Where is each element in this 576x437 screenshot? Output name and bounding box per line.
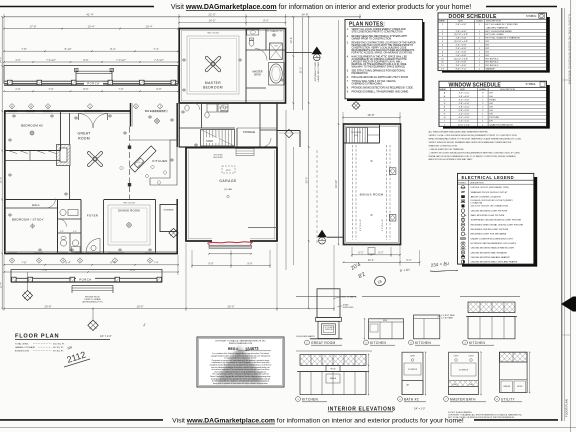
bonus room upper landing walls xyxy=(379,124,381,143)
kitchen ceiling diamonds xyxy=(120,166,124,170)
svg-text:(2) 2'-0" x 6'-8": (2) 2'-0" x 6'-8" xyxy=(454,58,468,60)
svg-text:220 VOLT OUTLET OR CONNECTION: 220 VOLT OUTLET OR CONNECTION xyxy=(471,206,509,208)
svg-text:4'-0": 4'-0" xyxy=(15,58,20,62)
main house bottom wall xyxy=(4,253,178,255)
svg-text:FLUSH SLATE HEARTH: FLUSH SLATE HEARTH xyxy=(296,335,315,338)
svg-text:EXT. FULL GLASS: EXT. FULL GLASS xyxy=(486,33,505,36)
svg-text:DUPLEX OUTLET (GROUNDED TYPE): DUPLEX OUTLET (GROUNDED TYPE) xyxy=(471,187,510,189)
kitchen elevation 2 label xyxy=(364,340,369,345)
svg-text:VERIFY LOCAL CODE EGRESS WINDO: VERIFY LOCAL CODE EGRESS WINDOW REQUIREM… xyxy=(429,134,518,137)
svg-text:SUSPENDED CEILING MOUNTED LIGH: SUSPENDED CEILING MOUNTED LIGHT FIXTURE xyxy=(471,220,522,222)
svg-text:REG #: REG # xyxy=(228,347,238,351)
svg-text:32'-8": 32'-8" xyxy=(0,177,3,184)
svg-text:7'-0 1/2": 7'-0 1/2" xyxy=(116,58,126,62)
svg-text:INT.: INT. xyxy=(486,55,490,57)
svg-text:5'-2": 5'-2" xyxy=(406,258,411,262)
svg-text:1/4" = 1'-0": 1/4" = 1'-0" xyxy=(414,409,425,411)
svg-text:KITCHEN: KITCHEN xyxy=(370,341,386,345)
top border rule left xyxy=(0,6,154,8)
kitchen counters xyxy=(150,140,177,185)
dining tray ceiling xyxy=(108,205,150,245)
svg-text:18'-8": 18'-8" xyxy=(367,113,374,117)
svg-text:STORAGE: STORAGE xyxy=(243,131,256,134)
svg-text:ABOVE COUNTER LOCATION: ABOVE COUNTER LOCATION xyxy=(471,195,501,198)
svg-text:13'-4": 13'-4" xyxy=(87,24,94,28)
bonus room attic access xyxy=(368,248,375,255)
svg-text:KITCHEN: KITCHEN xyxy=(302,398,318,402)
svg-text:KITCHEN: KITCHEN xyxy=(469,341,485,345)
svg-text:PICTURE: PICTURE xyxy=(490,117,500,119)
bedroom3 light xyxy=(30,131,34,135)
svg-text:RECESSED CEILING LIGHT FIXTURE: RECESSED CEILING LIGHT FIXTURE xyxy=(471,229,509,231)
svg-text:AND/OR ROUGH OPENING SIZE MAY: AND/OR ROUGH OPENING SIZE MAY VARY. xyxy=(429,158,474,161)
svg-text:SYMBOL:: SYMBOL: xyxy=(526,15,537,18)
bonus room stair landing xyxy=(368,128,380,144)
svg-text:6'-2": 6'-2" xyxy=(378,251,383,255)
main house front wall top inner xyxy=(4,112,131,114)
svg-text:2112 SQ. FT.: 2112 SQ. FT. xyxy=(53,344,65,346)
svg-text:2'-0" x 6'-8": 2'-0" x 6'-8" xyxy=(456,51,467,53)
svg-text:9'-0" x 7'-0": 9'-0" x 7'-0" xyxy=(456,69,467,71)
bottom dim extension verticals xyxy=(3,255,5,311)
top border rule right xyxy=(486,6,557,8)
svg-text:A: A xyxy=(135,104,137,108)
garage door header xyxy=(209,245,252,248)
window schedule shadow xyxy=(443,85,550,129)
svg-text:12'-6": 12'-6" xyxy=(289,37,293,44)
garage top wall xyxy=(186,147,277,149)
svg-text:DH: DH xyxy=(490,103,494,105)
overall bottom dimension line xyxy=(4,308,334,310)
svg-text:TRAY CEILING: TRAY CEILING xyxy=(207,32,220,35)
fireplace legs xyxy=(318,321,339,338)
window marks on bottom wall xyxy=(8,251,17,253)
bonus dim extension up xyxy=(338,20,340,124)
svg-text:(2) CAR: (2) CAR xyxy=(224,188,232,191)
svg-text:EXTERIOR CAST ALUMINUM FLOOD L: EXTERIOR CAST ALUMINUM FLOOD LIGHTS xyxy=(471,242,517,245)
svg-text:LIGHT: LIGHT xyxy=(410,356,415,358)
dining room walls xyxy=(104,199,156,201)
storage door arc xyxy=(262,138,271,147)
overall top dimension line xyxy=(4,16,360,18)
svg-text:(2) 2'-6" x 6'-8": (2) 2'-6" x 6'-8" xyxy=(454,41,468,43)
svg-text:(2) 2'-8" x 6'-8": (2) 2'-8" x 6'-8" xyxy=(454,34,468,36)
svg-text:UTILITY: UTILITY xyxy=(501,398,516,402)
svg-text:WALL MOUNTED LIGHT FIXTURE: WALL MOUNTED LIGHT FIXTURE xyxy=(471,214,505,217)
svg-text:FOR ATTIC ACCESS, SPACE, OR AV: FOR ATTIC ACCESS, SPACE, OR AVERAGE LOCA… xyxy=(352,51,414,54)
floor plan area table xyxy=(15,343,65,353)
master bath shower xyxy=(270,43,283,60)
svg-text:these plans or portions of the: these plans or portions of these plans w… xyxy=(213,382,268,385)
electrical legend rows xyxy=(460,186,523,264)
svg-text:INT. BI-FOLD: INT. BI-FOLD xyxy=(486,62,499,64)
svg-text:STORAGE: STORAGE xyxy=(163,208,174,211)
svg-text:DH: DH xyxy=(490,92,494,94)
svg-text:PROVIDE SMOKE DETECTORS AS REQ: PROVIDE SMOKE DETECTORS AS REQUIRED BY C… xyxy=(352,87,414,90)
copyright box inner xyxy=(199,339,283,386)
bedroom3 walls xyxy=(60,111,62,151)
svg-text:DH: DH xyxy=(490,114,494,116)
svg-text:INT.: INT. xyxy=(486,41,490,43)
bath upper cell fixtures xyxy=(60,209,66,215)
svg-text:TOTAL LIVING: TOTAL LIVING xyxy=(15,343,29,346)
bonus room knee wall dashed right xyxy=(386,145,388,240)
top dimension line 3 xyxy=(4,50,178,52)
svg-text:2'-0" x 6'-8": 2'-0" x 6'-8" xyxy=(456,62,467,64)
svg-text:INT.: INT. xyxy=(486,48,490,50)
porch lower dimension row xyxy=(4,90,178,92)
right margin tick b xyxy=(562,334,571,336)
elevations row1 ceiling line xyxy=(296,295,356,297)
bottom porch columns xyxy=(12,277,17,282)
bonus room vent symbol upper xyxy=(389,168,396,175)
kitchen elevation 4 uppers xyxy=(468,302,515,313)
svg-text:+ ARCHED TRANSOM: + ARCHED TRANSOM xyxy=(486,26,508,29)
svg-text:GREAT: GREAT xyxy=(78,132,91,136)
svg-text:DIRECT VENT VERIFY: DIRECT VENT VERIFY xyxy=(317,62,319,83)
svg-text:INSTALLATION IS RECOMMENDED DU: INSTALLATION IS RECOMMENDED DUE TO CLIMA… xyxy=(429,155,516,158)
svg-text:547 SQ. FT.: 547 SQ. FT. xyxy=(53,347,64,349)
top dimension extension lines xyxy=(3,14,5,66)
svg-text:60" MIRROR: 60" MIRROR xyxy=(459,370,469,372)
garage stoop line xyxy=(248,227,277,229)
window diamonds on bottom wall xyxy=(9,258,14,263)
svg-text:5'-6": 5'-6" xyxy=(156,87,161,91)
svg-text:EXT. 1 HOUR FIRE RATED: EXT. 1 HOUR FIRE RATED xyxy=(486,30,513,33)
svg-text:BONUS ROOM: BONUS ROOM xyxy=(15,351,29,353)
svg-text:HOOD: HOOD xyxy=(330,369,336,371)
svg-text:WWW.DONGARDNER.COM: WWW.DONGARDNER.COM xyxy=(229,342,253,345)
garage attic access dashed xyxy=(222,166,235,173)
master bedroom tray ceiling xyxy=(187,36,239,94)
electrical legend box xyxy=(458,173,534,264)
svg-text:INFORMATION.: INFORMATION. xyxy=(352,72,369,75)
svg-text:19'-0": 19'-0" xyxy=(136,304,143,308)
svg-text:OWNER PRIOR TO CONSTRUCTION.: OWNER PRIOR TO CONSTRUCTION. xyxy=(352,38,393,40)
svg-text:7'-8": 7'-8" xyxy=(21,47,26,51)
door schedule column headers xyxy=(439,20,502,23)
stoop walls right xyxy=(260,129,277,131)
master bedroom fan xyxy=(213,64,221,72)
svg-text:WALKWAY TO THE EQUIPMENT SPACE: WALKWAY TO THE EQUIPMENT SPACE SERVICE xyxy=(352,65,406,68)
svg-text:+ SEE ELEVATION FOR TRANSOM.: + SEE ELEVATION FOR TRANSOM. xyxy=(429,148,465,151)
svg-text:GARAGE / STORAGE: GARAGE / STORAGE xyxy=(15,346,36,349)
svg-text:8'-6": 8'-6" xyxy=(83,87,88,91)
right edge black arrow marker xyxy=(561,297,573,312)
svg-text:DH: DH xyxy=(490,110,494,112)
great room french doors xyxy=(79,114,94,129)
garage door dim line xyxy=(192,265,270,267)
handwritten circled 18 xyxy=(373,275,386,287)
bath2 label xyxy=(398,397,403,402)
window diamonds on front wall top xyxy=(9,104,14,109)
svg-text:DH: DH xyxy=(490,121,494,123)
svg-text:30'-0": 30'-0" xyxy=(305,177,309,184)
top porch front edge double line xyxy=(4,80,178,82)
utility half bath fixtures xyxy=(185,105,189,111)
svg-text:A: A xyxy=(149,259,151,263)
svg-text:2'-8" x 6'-8": 2'-8" x 6'-8" xyxy=(456,31,467,33)
right side vertical dim line a xyxy=(292,17,294,110)
breakfast west wall xyxy=(130,103,132,127)
svg-text:VERIFY WINDOW MODEL NUMBERS AN: VERIFY WINDOW MODEL NUMBERS AND SIZES WI… xyxy=(429,141,512,144)
bonus room stair xyxy=(347,128,368,144)
bonus room dot marks xyxy=(371,160,373,162)
right margin line 3 xyxy=(570,0,572,432)
breakfast fan light xyxy=(155,119,159,123)
svg-text:STARTING CONSTRUCTION.: STARTING CONSTRUCTION. xyxy=(429,144,458,147)
fireplace mantel xyxy=(316,318,342,322)
top porch steps xyxy=(76,70,112,72)
storage partition xyxy=(236,128,238,147)
kitchen 5 dim ticks xyxy=(368,354,370,394)
stoop walls xyxy=(277,130,300,132)
svg-text:8'-0" CLG. HT.: 8'-0" CLG. HT. xyxy=(382,218,384,231)
svg-text:LIGHT: LIGHT xyxy=(454,356,459,358)
section marker lower with leader xyxy=(317,230,327,237)
svg-text:14'-8": 14'-8" xyxy=(301,13,308,17)
master bath vanity xyxy=(247,30,259,36)
main house front wall top xyxy=(4,110,131,112)
svg-text:EXT. FULL GLASS W 2' TRANSOM: EXT. FULL GLASS W 2' TRANSOM xyxy=(486,37,520,40)
svg-text:7'-6 1/2": 7'-6 1/2" xyxy=(46,58,56,62)
svg-text:FOYER: FOYER xyxy=(87,214,98,218)
upper right diamond marker xyxy=(285,129,293,137)
door schedule box xyxy=(438,13,547,71)
left lower diamond marker xyxy=(27,272,29,291)
svg-text:1/4" = 1'-0": 1/4" = 1'-0" xyxy=(100,335,112,338)
svg-text:2'-8" x 3'-0": 2'-8" x 3'-0" xyxy=(459,110,470,112)
window schedule grid and rows xyxy=(450,88,452,127)
svg-text:RANGE: RANGE xyxy=(330,377,337,380)
garage outline xyxy=(186,147,277,241)
main house right wall lower xyxy=(176,199,178,254)
svg-text:NOT TO BE COPIED OR REPRODUCED: NOT TO BE COPIED OR REPRODUCED WITHOUT W… xyxy=(448,417,515,419)
kitchen elevation 5 hood xyxy=(326,365,340,371)
bottom right disclaimer xyxy=(448,411,523,419)
svg-text:20'-0": 20'-0" xyxy=(227,304,234,308)
svg-text:3'-0": 3'-0" xyxy=(73,231,77,233)
svg-text:CEILING MOUNTED PADDLE FAN W/: CEILING MOUNTED PADDLE FAN W/ LIGHT xyxy=(471,247,516,250)
great room elevation label xyxy=(305,340,310,345)
svg-text:2'-8": 2'-8" xyxy=(60,231,64,233)
svg-text:FLOOR PLAN: FLOOR PLAN xyxy=(15,334,59,340)
svg-text:334673: 334673 xyxy=(245,345,259,351)
svg-text:8'-0": 8'-0" xyxy=(263,19,268,23)
door schedule shadow xyxy=(442,17,550,73)
svg-text:SITE CONDITIONS PRIOR TO CONST: SITE CONDITIONS PRIOR TO CONSTRUCTION. xyxy=(352,32,404,34)
svg-text:FLOOR PLAN: FLOOR PLAN xyxy=(565,399,569,417)
svg-text:Visit www.DAGmarketplace.com f: Visit www.DAGmarketplace.com for informa… xyxy=(171,4,471,11)
master suite outline xyxy=(179,29,285,104)
svg-text:2'-8" x 5'-0": 2'-8" x 5'-0" xyxy=(459,103,470,105)
svg-text:8'-6": 8'-6" xyxy=(83,58,88,62)
svg-text:2'-0": 2'-0" xyxy=(15,87,20,91)
svg-text:DH: DH xyxy=(490,107,494,109)
great room column posts xyxy=(128,146,131,149)
master bedroom bath divider xyxy=(245,29,247,104)
utility label xyxy=(495,397,500,402)
window schedule box xyxy=(439,81,547,126)
right margin tick a xyxy=(562,79,571,81)
svg-text:20'-4": 20'-4" xyxy=(368,258,375,262)
svg-text:UNDER COUNTER FLUORESCENT LIGH: UNDER COUNTER FLUORESCENT LIGHT xyxy=(471,238,514,240)
svg-text:2'-6" x 6'-8": 2'-6" x 6'-8" xyxy=(456,45,467,47)
garage door red annotation xyxy=(208,242,253,243)
svg-text:12'-4": 12'-4" xyxy=(0,282,3,289)
svg-text:J: J xyxy=(444,124,445,126)
copyright body text xyxy=(210,352,272,385)
svg-text:9'-9": 9'-9" xyxy=(208,261,213,265)
utility elevation uppers xyxy=(500,352,528,362)
master bath partitions xyxy=(246,49,286,51)
master bath door arc xyxy=(255,49,267,61)
svg-text:LOCATION): LOCATION) xyxy=(471,201,483,204)
kitchen elevation 2 cabinets xyxy=(369,319,404,339)
electrical legend shadow xyxy=(462,177,537,267)
door schedule grid and rows xyxy=(447,19,449,70)
bottom dim line row2 xyxy=(4,271,178,273)
breakfast east wall xyxy=(176,103,178,147)
svg-text:7'-6 1/2": 7'-6 1/2" xyxy=(154,58,164,62)
svg-text:15 RISERS: 15 RISERS xyxy=(351,132,362,134)
dining light xyxy=(127,223,131,227)
kitchen elevation 3 cabinets xyxy=(414,315,440,339)
svg-text:BEDROOM #3: BEDROOM #3 xyxy=(21,124,43,128)
bottom border rule left xyxy=(0,419,163,421)
svg-text:Visit www.DAGmarketplace.com f: Visit www.DAGmarketplace.com for informa… xyxy=(172,418,464,425)
kitchen elevation 5 label xyxy=(296,397,301,402)
kitchen elevation 5 counter base xyxy=(297,371,369,373)
bath lower cells fixtures xyxy=(60,240,66,246)
svg-text:ALL WINDOWS ARE INSULATED AND: ALL WINDOWS ARE INSULATED AND WEATHERSTR… xyxy=(429,131,489,134)
svg-text:6'-2": 6'-2" xyxy=(358,251,363,255)
svg-text:KITCHEN: KITCHEN xyxy=(415,341,431,345)
svg-text:BATH #2: BATH #2 xyxy=(404,398,419,402)
svg-text:A: A xyxy=(30,104,32,108)
svg-text:3'-0" x 5'-0": 3'-0" x 5'-0" xyxy=(459,92,470,94)
svg-text:EXT. 3/4 GLASS W 2' SIDELITES: EXT. 3/4 GLASS W 2' SIDELITES xyxy=(486,23,519,26)
top porch label xyxy=(84,82,103,85)
right mid diamond marker xyxy=(169,228,178,237)
utility appliances xyxy=(207,104,217,112)
storage bottom room xyxy=(160,205,177,232)
great room west high windows xyxy=(69,113,71,144)
svg-text:CEILING MOUNTED FAN / EXHAUST: CEILING MOUNTED FAN / EXHAUST xyxy=(471,251,508,254)
svg-text:ALL IDEAS, PLANS, AND DESIGNS: ALL IDEAS, PLANS, AND DESIGNS REPRESENTE… xyxy=(567,14,570,85)
svg-text:RECESSED DIRECTIONAL CEILING L: RECESSED DIRECTIONAL CEILING LIGHT FIXTU… xyxy=(471,223,524,226)
svg-text:14'-0": 14'-0" xyxy=(209,19,216,23)
svg-text:FIXED: FIXED xyxy=(490,99,497,101)
svg-text:A: A xyxy=(11,259,13,263)
svg-text:3'-0" x 6'-8": 3'-0" x 6'-8" xyxy=(456,65,467,67)
svg-text:2'-4" x 6'-8": 2'-4" x 6'-8" xyxy=(456,48,467,50)
svg-text:GREAT ROOM: GREAT ROOM xyxy=(311,341,336,345)
master bath label xyxy=(444,397,449,402)
svg-text:6'-0" x 5'-0": 6'-0" x 5'-0" xyxy=(459,117,470,119)
copyright box outer xyxy=(197,337,284,387)
svg-text:A: A xyxy=(47,104,49,108)
bedroom study right wall xyxy=(57,200,59,254)
svg-text:BATH: BATH xyxy=(254,74,260,77)
master bath dim xyxy=(480,352,482,394)
svg-text:2'-8" x 6'-8": 2'-8" x 6'-8" xyxy=(456,24,467,26)
top porch columns xyxy=(8,80,13,85)
svg-text:TRAY CEILING: TRAY CEILING xyxy=(123,201,136,204)
svg-text:PORCH: PORCH xyxy=(87,82,100,86)
bottom porch outline xyxy=(11,270,162,283)
svg-text:WEATHER PROOF DUPLEX OUTLET: WEATHER PROOF DUPLEX OUTLET xyxy=(471,191,509,194)
fireplace firebox xyxy=(322,324,336,335)
svg-text:1'-9" AT TRASH: 1'-9" AT TRASH xyxy=(441,316,454,319)
svg-text:20'-8": 20'-8" xyxy=(44,304,51,308)
svg-text:41'-4": 41'-4" xyxy=(86,13,93,17)
svg-text:BEDROOM / STUDY: BEDROOM / STUDY xyxy=(12,218,44,222)
bonus room bottom dim row1 xyxy=(352,254,400,256)
svg-text:2'-8" x 4'-0": 2'-8" x 4'-0" xyxy=(459,107,470,109)
bonus room right extension line xyxy=(399,245,401,266)
section marker upper right xyxy=(286,52,312,54)
svg-text:DINING ROOM: DINING ROOM xyxy=(118,209,140,213)
fireplace hearth base line xyxy=(310,338,343,340)
svg-text:DH: DH xyxy=(490,96,494,98)
stoop steps by garage xyxy=(236,149,254,156)
utility room partition xyxy=(201,103,203,128)
foyer walls xyxy=(80,200,82,254)
svg-text:ROOM: ROOM xyxy=(78,137,90,141)
kitchen elevation 5 uppers xyxy=(300,354,366,365)
svg-text:CEILING MOUNTED FAN AND HEATER: CEILING MOUNTED FAN AND HEATER xyxy=(471,256,510,259)
master bath elevation vanity xyxy=(449,381,479,387)
kitchen elevation 4 label xyxy=(463,340,468,345)
svg-text:7'-0": 7'-0" xyxy=(118,87,123,91)
garage side dim lines xyxy=(285,110,287,270)
bottom dim line row1 xyxy=(4,264,178,266)
svg-text:RECESSED LIGHT FOR WET AREA: RECESSED LIGHT FOR WET AREA xyxy=(471,233,507,236)
center lower diamond marker xyxy=(92,309,94,321)
bath2 dim xyxy=(425,352,427,394)
master bath elevation xyxy=(449,352,479,394)
svg-text:HALL: HALL xyxy=(32,203,40,207)
hall walls xyxy=(4,199,81,201)
svg-text:8'-0" CLG. HT.: 8'-0" CLG. HT. xyxy=(360,218,362,231)
bottom porch steps xyxy=(72,285,113,287)
svg-text:3'-0" x 4'-0": 3'-0" x 4'-0" xyxy=(459,96,470,98)
left edge vertical dimension line xyxy=(1,17,3,309)
bedroom study ceiling light xyxy=(30,224,34,228)
svg-text:REQUIRED: REQUIRED xyxy=(213,157,223,159)
svg-text:9'-9": 9'-9" xyxy=(247,261,252,265)
svg-text:7'-8": 7'-8" xyxy=(21,261,26,265)
svg-text:2'-8" x 6'-8": 2'-8" x 6'-8" xyxy=(456,38,467,40)
svg-text:STAIR: STAIR xyxy=(206,140,213,143)
window schedule column headers xyxy=(440,88,516,91)
plan notes shadow xyxy=(347,22,425,101)
kitchen elevation 4 counter and base xyxy=(466,316,517,318)
svg-text:PROVIDE DOORBELL, TRANSFORMER,: PROVIDE DOORBELL, TRANSFORMER, AND CHIME… xyxy=(352,91,409,94)
svg-text:CEILING MOUNTED LIGHT FIXTURE: CEILING MOUNTED LIGHT FIXTURE xyxy=(471,210,508,212)
top porch outline xyxy=(4,66,178,84)
svg-text:8'-4": 8'-4" xyxy=(110,261,115,265)
svg-text:24'-10": 24'-10" xyxy=(334,180,338,188)
svg-text:BUILT UP MANTEL: BUILT UP MANTEL xyxy=(342,296,358,299)
master bath tub xyxy=(269,63,285,86)
window schedule notes text xyxy=(429,131,522,162)
bonus room bottom dim row2 xyxy=(344,261,420,263)
great room fireplace elevation chimney xyxy=(317,289,340,318)
bottom porch label xyxy=(76,278,95,282)
svg-text:SYMBOL: SYMBOL xyxy=(526,83,537,86)
